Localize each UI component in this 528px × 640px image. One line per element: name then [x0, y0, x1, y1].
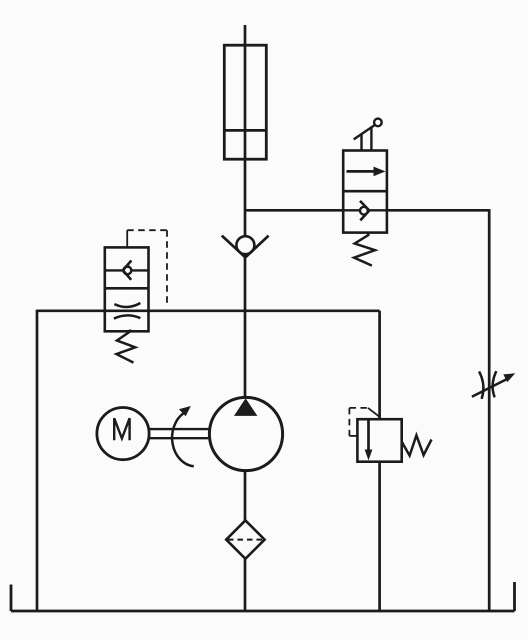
filter F1 [226, 520, 264, 558]
V2 lower position check symbol [343, 201, 387, 221]
wire: lever valve to right riser [387, 209, 489, 212]
wire: right riser to tank [488, 209, 491, 611]
V2 upper position flow arrow [347, 167, 386, 177]
V1 spring [117, 330, 136, 363]
check valve CV1 (below cylinder) [222, 236, 269, 258]
wire: branch junction to lever valve [245, 209, 343, 212]
V1 check position symbol [105, 261, 149, 280]
V1 throttle position arcs [114, 303, 140, 319]
V1 pilot line (dashed) [127, 230, 167, 304]
wire: left frame down to tank [36, 310, 39, 611]
cylinder C1 [224, 45, 266, 159]
wire: pump pressure line (check valve to pump) [244, 255, 247, 398]
RV1 pilot line (dashed) [349, 408, 379, 436]
hydraulic pump P1 [209, 397, 282, 470]
electric motor M1 [97, 408, 149, 460]
wire: filter to tank [244, 559, 247, 611]
wire: left bypass line horizontal [37, 309, 380, 312]
drive shaft [149, 429, 209, 438]
variable throttle FT1 (right riser) [479, 371, 496, 399]
flow control valve V1 body (left) [105, 247, 149, 331]
V2 return spring [354, 233, 375, 266]
tank / reservoir [11, 582, 515, 611]
pressure relief valve RV1 body [357, 419, 401, 462]
RV1 flow arrow [365, 419, 373, 460]
directional valve V2 body (2/2 lever valve) [343, 151, 387, 233]
FT1 adjustment arrow [472, 373, 515, 397]
wire: relief valve riser top [378, 311, 381, 419]
motor letter M [114, 418, 129, 440]
wire: cylinder rod / supply line top [244, 25, 247, 237]
rotation arrow [172, 406, 194, 466]
wire: pump to filter [244, 471, 247, 521]
RV1 spring (right side) [402, 435, 432, 455]
wire: relief valve to tank [378, 462, 381, 611]
V2 lever actuator [354, 119, 382, 151]
